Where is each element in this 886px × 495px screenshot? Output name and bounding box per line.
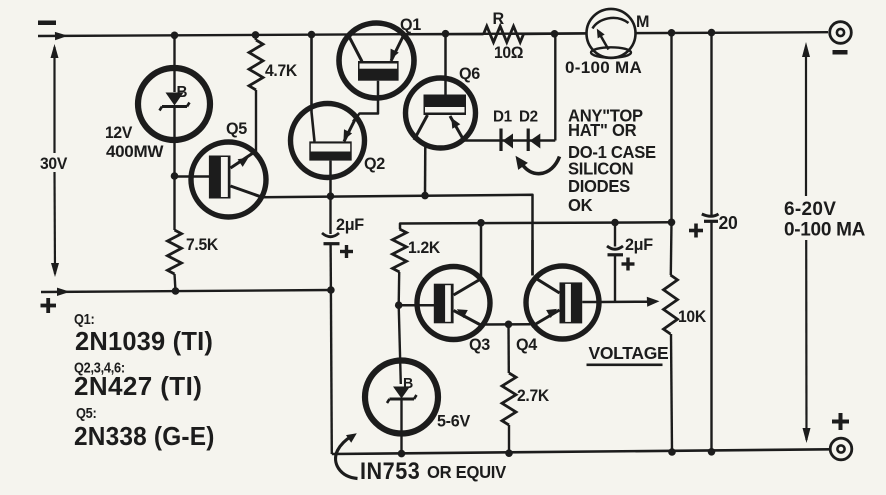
label IN753: [360, 457, 420, 484]
svg-text:2N427 (TI): 2N427 (TI): [74, 371, 202, 401]
transistor Q5: [175, 142, 267, 217]
junction top rail / 6-20V branch: [668, 29, 676, 37]
label 2N338 (G-E): [74, 422, 215, 451]
svg-text:Q4: Q4: [516, 335, 538, 354]
label OR EQUIV: [427, 463, 507, 482]
minus input terminal mark: [38, 21, 56, 26]
svg-text:10Ω: 10Ω: [494, 44, 524, 62]
output dimension arrow 6-20V: [802, 42, 811, 443]
svg-text:HAT" OR: HAT" OR: [568, 121, 636, 140]
svg-text:5-6V: 5-6V: [437, 411, 470, 430]
svg-text:20: 20: [719, 213, 738, 234]
label B (zener D3): [177, 84, 188, 101]
svg-text:B: B: [177, 84, 188, 101]
svg-text:IN753: IN753: [360, 457, 420, 484]
resistor R 4.7K: [249, 35, 263, 153]
svg-text:Q1:: Q1:: [74, 310, 94, 327]
svg-text:2μF: 2μF: [336, 215, 364, 234]
junction top rail / R 4.7K: [252, 31, 260, 39]
svg-text:2N1039 (TI): 2N1039 (TI): [75, 328, 213, 356]
label VOLTAGE: [587, 343, 669, 366]
svg-text:Q1: Q1: [400, 15, 421, 34]
label B (zener D4): [403, 376, 413, 392]
label 12V: [105, 124, 133, 142]
svg-text:D2: D2: [519, 108, 538, 125]
label Q2,3,4,6: designation: [74, 358, 125, 375]
label Q1: designation: [74, 310, 94, 327]
capacitor C2 2uF: [607, 223, 635, 303]
resistor R 7.5K: [168, 176, 182, 291]
wire bottom +30V input rail: [41, 288, 331, 296]
wire diode branch vertical: [554, 34, 556, 141]
junction rail-B / 10K: [668, 219, 676, 227]
resistor R 10 ohms: [404, 26, 587, 42]
label 0-100MA (output): [784, 220, 866, 241]
diode D1: [501, 129, 513, 152]
svg-text:0-100 MA: 0-100 MA: [565, 58, 642, 77]
svg-text:D1: D1: [493, 108, 512, 125]
label minus (output): [833, 50, 848, 55]
output terminal positive: [830, 438, 852, 460]
meter M 0-100MA: [587, 9, 636, 58]
svg-text:2N338 (G-E): 2N338 (G-E): [74, 422, 215, 451]
junction top rail / Q6 base: [442, 30, 450, 38]
svg-text:Q6: Q6: [459, 64, 480, 83]
wire top +30V rail: [38, 32, 828, 40]
svg-text:400MW: 400MW: [106, 142, 164, 161]
junction zener D4 / bottom rail: [398, 450, 406, 458]
label 10 ohms: [494, 44, 524, 62]
transistor Q3: [399, 223, 490, 340]
junction top rail / Q2 collector: [308, 31, 316, 39]
label 2.7K: [517, 387, 550, 405]
label R: [493, 9, 505, 28]
label 2N1039 (TI): [75, 328, 213, 356]
svg-text:6-20V: 6-20V: [784, 199, 836, 220]
resistor R 1.2K: [393, 229, 407, 305]
label 0-100MA (meter): [565, 58, 642, 77]
wire rail Q5-collector to Q2-base/Q6 and down to Q4 collector: [262, 195, 533, 276]
svg-text:1.2K: 1.2K: [408, 239, 441, 257]
svg-text:2μF: 2μF: [625, 235, 653, 254]
svg-text:B: B: [403, 376, 413, 392]
svg-text:VOLTAGE: VOLTAGE: [589, 343, 669, 363]
label 2N427 (TI): [74, 371, 202, 401]
junction output rail / 10K: [668, 448, 676, 456]
zener diode D3 12V 400MW: [138, 35, 210, 176]
label plus (output): [832, 413, 849, 430]
label Q1: [400, 15, 421, 34]
junction zener D3 - Q5 base - R 7.5K: [171, 172, 179, 180]
plus input terminal mark: [41, 298, 57, 313]
label 1.2K: [408, 239, 441, 257]
note ANY TOP HAT OR DO-1 CASE SILICON DIODES OK: [568, 106, 656, 215]
label Q6: [459, 64, 480, 83]
label 20 (C3): [719, 213, 738, 234]
label 6-20V: [784, 199, 836, 220]
label D2: [519, 108, 538, 125]
label Q5: [226, 119, 247, 138]
transistor Q6: [406, 34, 476, 196]
svg-text:2.7K: 2.7K: [517, 387, 550, 405]
svg-text:4.7K: 4.7K: [265, 62, 298, 80]
label 2uF (C1): [336, 215, 364, 234]
label 30V: [40, 155, 68, 173]
junction top rail / zener D3: [171, 32, 179, 40]
svg-text:Q5:: Q5:: [76, 404, 96, 421]
svg-text:OK: OK: [568, 196, 593, 215]
wire Q4 base to 10K wiper: [600, 297, 660, 307]
label D1: [493, 108, 512, 125]
svg-text:10K: 10K: [678, 308, 707, 326]
junction emitter link / 2.7K: [505, 321, 513, 329]
wire Q6 emitter to diodes: [463, 139, 555, 141]
wire bottom output rail: [332, 449, 830, 454]
resistor R 2.7K: [502, 324, 516, 453]
potentiometer R 10K: [664, 222, 678, 452]
label Q5: designation: [76, 404, 96, 421]
label Q2: [364, 154, 385, 173]
junction rail-B / C2: [611, 219, 619, 227]
label 7.5K: [186, 236, 219, 254]
label 10K: [678, 308, 707, 326]
annotation arrow to zener D4: [336, 433, 358, 478]
junction 1.2K - Q3 base - zener D4: [395, 301, 403, 309]
junction rail-A / Q2 base: [327, 192, 335, 200]
svg-text:30V: 30V: [40, 155, 68, 173]
zener diode D4 IN753 5-6V: [365, 305, 438, 453]
svg-text:DIODES: DIODES: [568, 177, 630, 196]
node 30V input dimension arrow: [51, 44, 60, 277]
svg-text:R: R: [493, 9, 505, 28]
junction rail-A / Q6 collector: [421, 192, 429, 200]
svg-text:Q3: Q3: [469, 335, 490, 354]
junction top rail / 20uF branch: [708, 29, 716, 37]
annotation arrow to diodes: [516, 156, 560, 174]
svg-text:Q5: Q5: [226, 119, 247, 138]
wire Q3 emitter - Q4 emitter: [484, 323, 532, 326]
junction bottom rail / C1 / left drop: [327, 286, 335, 294]
transistor Q1: [339, 23, 414, 122]
capacitor C1 2uF: [322, 196, 353, 290]
label 2uF (C2): [625, 235, 653, 254]
svg-text:0-100 MA: 0-100 MA: [784, 220, 866, 241]
diode D2: [528, 129, 540, 152]
label 4.7K: [265, 62, 298, 80]
junction output rail / C3: [708, 448, 716, 456]
wire rail-B 1.2K top to 10K top: [400, 222, 672, 229]
wire left drop to output rail: [330, 290, 333, 454]
label 5-6V: [437, 411, 470, 430]
wire right-middle vertical to rail-B: [670, 33, 672, 223]
label Q3: [469, 335, 490, 354]
svg-text:OR EQUIV: OR EQUIV: [427, 463, 507, 482]
transistor Q2: [291, 35, 365, 197]
label 400MW: [106, 142, 164, 161]
junction rail-B / Q3 collector: [477, 219, 485, 227]
svg-text:12V: 12V: [105, 124, 133, 142]
junction bottom rail / 7.5K: [172, 287, 180, 295]
output terminal negative: [830, 22, 852, 44]
svg-text:Q2: Q2: [364, 154, 385, 173]
capacitor C3 20uF: [689, 33, 719, 452]
junction top rail / diode branch: [551, 30, 559, 38]
label M: [636, 12, 649, 31]
transistor Q4: [526, 240, 600, 339]
label Q4: [516, 335, 538, 354]
svg-text:7.5K: 7.5K: [186, 236, 219, 254]
svg-text:M: M: [636, 12, 649, 31]
junction output rail / 2.7K: [505, 449, 513, 457]
